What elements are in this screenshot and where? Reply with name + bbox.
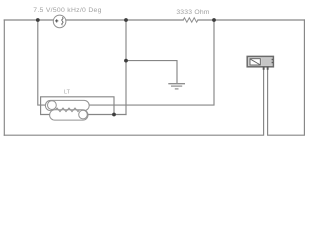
- node TL out- junction: [112, 113, 116, 117]
- svg-text:7.5 V/500 kHz/0 Deg: 7.5 V/500 kHz/0 Deg: [33, 7, 101, 14]
- resistor R1: [183, 18, 198, 22]
- AC source V1: [53, 15, 66, 28]
- wire resistor node down to TL out+: [89, 20, 214, 105]
- svg-text:3333 Ohm: 3333 Ohm: [176, 9, 209, 16]
- node ground tap junction: [124, 59, 128, 63]
- wire left rail: [3, 20, 5, 135]
- node mid/ground junction top: [124, 18, 128, 22]
- node source/TL-in junction: [36, 18, 40, 22]
- oscilloscope XSC1: [247, 56, 273, 69]
- transmission line LT: [45, 100, 89, 120]
- wire middle vertical to ground and TL out-: [125, 20, 127, 115]
- wire TL out-: [87, 114, 126, 116]
- wire TL in- loop: [41, 97, 114, 115]
- junction dots: [36, 18, 216, 116]
- wire source node to TL input: [38, 20, 48, 105]
- node resistor output junction: [212, 18, 216, 22]
- wire scope B loop: [268, 20, 305, 135]
- svg-text:LT: LT: [64, 90, 71, 96]
- wire bottom rail: [4, 67, 263, 135]
- ground: [168, 84, 185, 89]
- wire top rail: [4, 19, 304, 21]
- wire ground tap: [126, 61, 177, 84]
